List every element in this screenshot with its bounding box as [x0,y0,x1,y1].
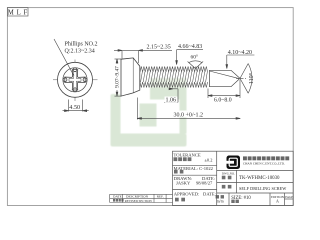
MLF box [7,8,28,17]
dim 4.66~4.83 [176,50,203,65]
company logo [227,156,241,170]
border frame [7,8,293,206]
phillips recess cross [63,68,87,92]
svg-text:m/m: m/m [217,200,224,204]
svg-text:M L F: M L F [8,10,28,17]
svg-text:4.50: 4.50 [69,104,80,111]
svg-text:DATE:: DATE: [203,192,216,197]
centerline vertical [74,60,76,102]
dim 2.15~2.35 [114,50,172,64]
svg-text:6.0~8.0: 6.0~8.0 [214,98,232,104]
svg-text:DATE: DATE [113,195,122,199]
head outer circle [58,62,93,97]
svg-text:TK-WFHMC-10030: TK-WFHMC-10030 [239,176,280,181]
svg-text:9.07~9.47: 9.07~9.47 [115,66,121,88]
head inner chamfer lines [132,58,134,93]
svg-text:SELF DRILLING SCREW: SELF DRILLING SCREW [239,186,287,191]
dim 1.06 pitch [164,88,178,102]
svg-text:60°: 60° [191,54,199,61]
svg-text:98/08/27: 98/08/27 [196,181,213,186]
revision table [110,194,173,202]
60 degree thread angle [188,61,204,69]
svg-text:4.10~4.20: 4.10~4.20 [228,50,252,56]
flute line [210,71,240,79]
svg-text:Phillips NO.2: Phillips NO.2 [65,42,98,48]
svg-text:Q:2.13~2.34: Q:2.13~2.34 [65,49,95,55]
svg-text:PAGE: PAGE [285,195,293,199]
bottom row [216,195,224,198]
dimension 4.50 [63,100,89,112]
svg-text:4.66~4.83: 4.66~4.83 [178,44,202,50]
svg-text:2.15~2.35: 2.15~2.35 [147,45,171,51]
svg-text:REVISED SECTION: REVISED SECTION [125,199,153,203]
svg-text:30.0 +0/-1.2: 30.0 +0/-1.2 [174,113,204,119]
svg-text:JASKY: JASKY [176,181,191,186]
svg-text:110°: 110° [248,72,255,84]
svg-text:A: A [276,198,279,203]
svg-text:REF.: REF. [157,195,164,199]
svg-text:1.06: 1.06 [166,98,177,104]
svg-text:APPROVED:: APPROVED: [174,192,200,197]
head (side) [121,58,140,96]
svg-text:±0.2: ±0.2 [205,157,213,162]
dim 9.07~9.47 [115,59,122,96]
drill point body [210,70,241,86]
leader line phillips [54,39,74,76]
centerline horizontal [53,79,98,81]
dim 4.10~4.20 [226,55,254,69]
svg-text:DWG.NO.: DWG.NO. [222,171,235,175]
part name row [222,185,232,189]
company name [243,156,289,160]
svg-text:TOLERANCE: TOLERANCE [174,152,201,157]
110 degree point angle [236,64,252,94]
threads [140,67,208,88]
svg-text:MATERIAL: C-1022: MATERIAL: C-1022 [174,166,214,171]
dim 30.0 +0/-1.2 [137,98,240,120]
head inner circle [63,68,87,92]
dim 6.0~8.0 [208,80,240,98]
